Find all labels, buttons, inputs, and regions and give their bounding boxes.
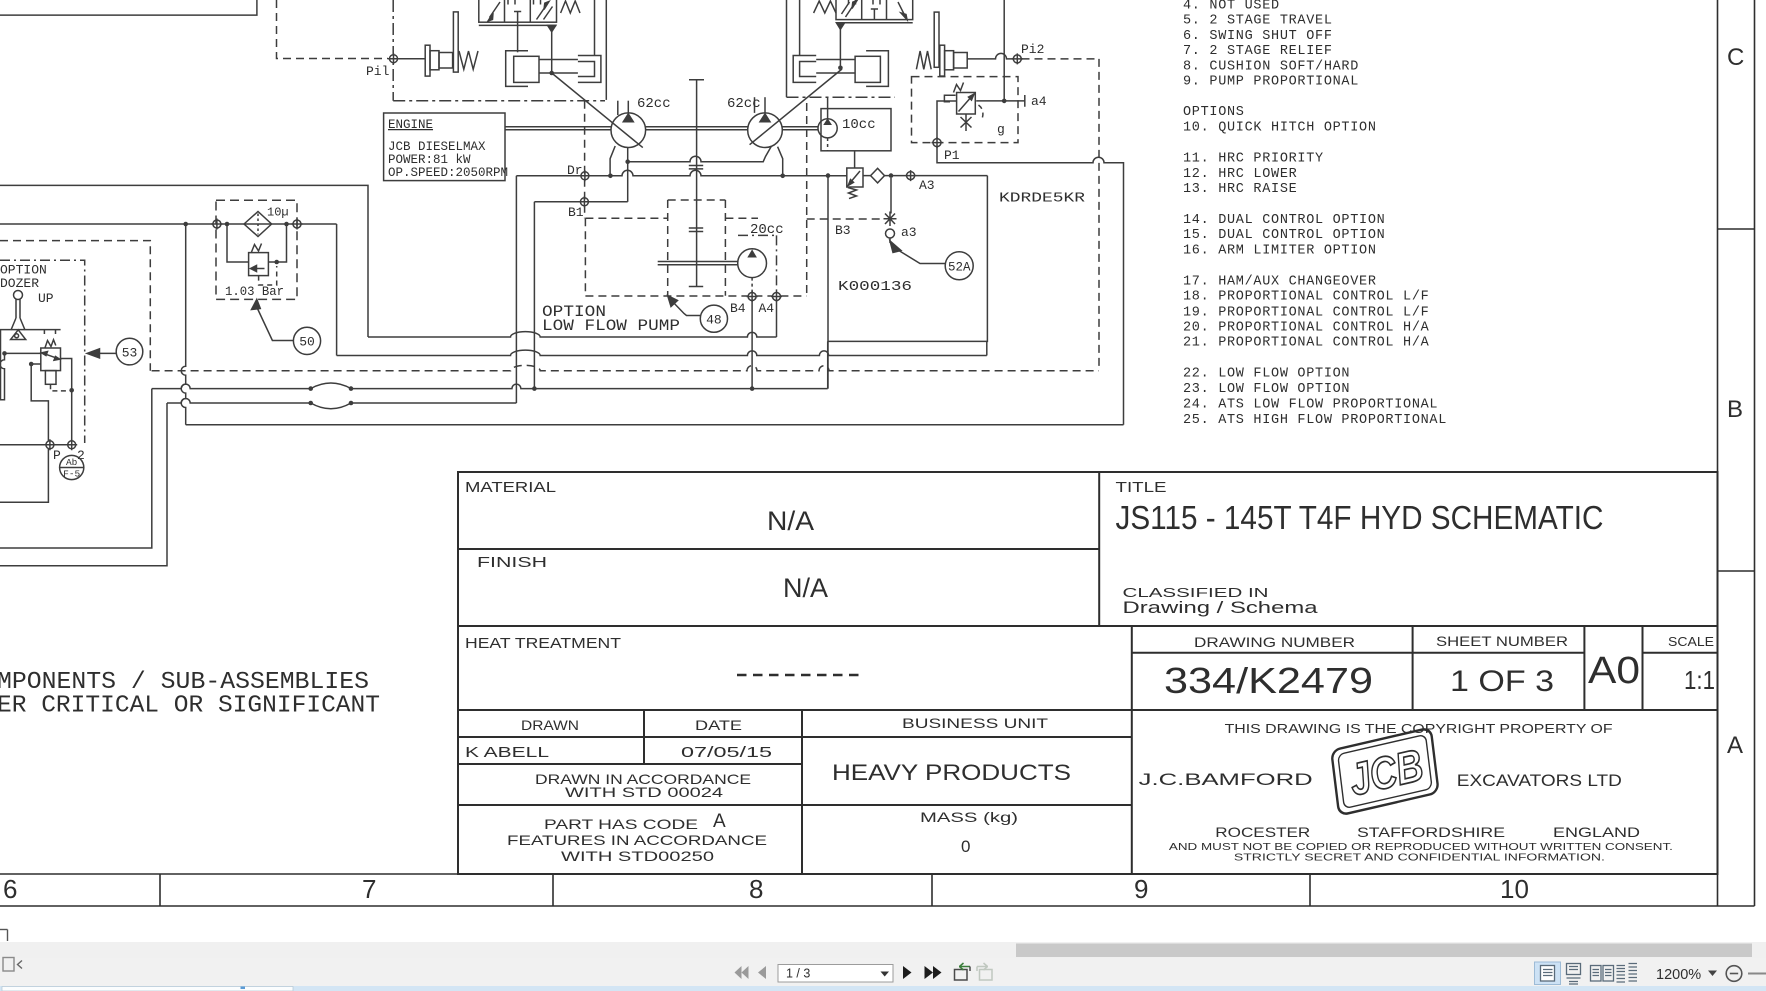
bypass spring <box>252 244 262 253</box>
pump P4 dash-dot enclosure <box>738 235 777 295</box>
lever pivot <box>11 330 26 340</box>
svg-text:N/A: N/A <box>767 506 814 536</box>
svg-text:DOZER: DOZER <box>0 276 39 291</box>
wire A4 drop to bus corner <box>776 301 778 338</box>
R2 spool pilot stubs <box>849 0 881 5</box>
svg-text:a4: a4 <box>1031 94 1047 109</box>
node bypass outlet <box>274 260 279 265</box>
node P1 leg interconnect <box>625 159 630 164</box>
transfer gearbox dashed box <box>668 200 726 296</box>
title block borders <box>458 472 1718 874</box>
bypass valve wires <box>227 224 287 262</box>
node B1 drop on return bus <box>532 386 537 391</box>
svg-text:FINISH: FINISH <box>477 554 547 571</box>
wire pressure bus from filter <box>337 350 987 355</box>
wire actuator to Pi2 <box>967 53 1013 59</box>
cut-off valve box top-left <box>0 0 257 15</box>
node K000136 top left <box>826 173 831 178</box>
wire valve inlet <box>5 352 41 354</box>
svg-text:KDRDE5KR: KDRDE5KR <box>999 191 1086 207</box>
svg-text:5. 2 STAGE TRAVEL: 5. 2 STAGE TRAVEL <box>1183 14 1333 29</box>
regulator block R1 dash-dot border <box>393 0 605 101</box>
svg-text:WITH STD00250: WITH STD00250 <box>561 848 714 864</box>
shaft couplings <box>689 166 703 232</box>
svg-text:A0: A0 <box>1588 650 1640 692</box>
svg-text:18. PROPORTIONAL CONTROL L/F: 18. PROPORTIONAL CONTROL L/F <box>1183 290 1429 305</box>
return bus lower with hose loop <box>167 399 516 404</box>
svg-text:17. HAM/AUX CHANGEOVER: 17. HAM/AUX CHANGEOVER <box>1183 275 1377 290</box>
bypass pilot dashed <box>259 266 277 285</box>
svg-text:N/A: N/A <box>783 573 828 603</box>
pump P3 10cc enclosure <box>821 109 891 151</box>
svg-text:10cc: 10cc <box>842 117 876 133</box>
R2 actuator spring <box>916 51 931 69</box>
svg-text:8. CUSHION SOFT/HARD: 8. CUSHION SOFT/HARD <box>1183 59 1359 74</box>
svg-text:THIS DRAWING IS THE COPYRIGHT: THIS DRAWING IS THE COPYRIGHT PROPERTY O… <box>1225 722 1613 736</box>
wire a4 riser <box>1003 0 1005 101</box>
svg-text:LOW FLOW PUMP: LOW FLOW PUMP <box>542 317 680 335</box>
svg-text:20. PROPORTIONAL CONTROL H/A: 20. PROPORTIONAL CONTROL H/A <box>1183 321 1430 336</box>
svg-text:OP.SPEED:2050RPM: OP.SPEED:2050RPM <box>388 166 508 180</box>
tank bus bottom <box>186 424 1124 426</box>
wire drain bus from header <box>368 332 777 337</box>
svg-text:SHEET NUMBER: SHEET NUMBER <box>1436 633 1568 649</box>
frame zone divider C/B <box>1718 228 1755 230</box>
wire P3 top port <box>827 97 829 119</box>
svg-text:J.C.BAMFORD: J.C.BAMFORD <box>1139 770 1313 789</box>
port A3 <box>905 170 916 181</box>
R2 inner wires <box>799 0 801 56</box>
balloon 53 <box>116 338 143 365</box>
dozer inner dash-dot enclosure <box>0 260 85 443</box>
svg-text:P: P <box>53 448 61 463</box>
frame bottom line <box>0 905 1755 907</box>
svg-text:A: A <box>713 811 726 832</box>
svg-text:Ab: Ab <box>66 457 78 468</box>
svg-text:A: A <box>1727 732 1743 759</box>
wire triangle to servo piston <box>551 32 553 73</box>
svg-text:Pi2: Pi2 <box>1021 42 1044 57</box>
svg-text:TITLE: TITLE <box>1116 479 1167 496</box>
R2 pilot actuator <box>940 45 967 76</box>
valve g pilot bracket <box>944 95 955 102</box>
svg-text:25. ATS HIGH FLOW PROPORTIONAL: 25. ATS HIGH FLOW PROPORTIONAL <box>1183 413 1447 428</box>
R1 spool bottom line <box>479 24 557 26</box>
svg-text:9. PUMP PROPORTIONAL: 9. PUMP PROPORTIONAL <box>1183 75 1359 90</box>
nav next page button <box>903 966 912 979</box>
svg-text:B4: B4 <box>730 301 746 316</box>
bottom status strip <box>0 986 1766 991</box>
dozer control lever <box>14 291 23 300</box>
svg-text:16. ARM LIMITER OPTION: 16. ARM LIMITER OPTION <box>1183 244 1377 259</box>
wire ports P and 2 <box>0 444 68 446</box>
wire B1 <box>534 201 627 203</box>
svg-text:4. NOT USED: 4. NOT USED <box>1183 0 1280 14</box>
svg-text:7: 7 <box>362 874 376 904</box>
wire filter tee drop to bus <box>181 224 186 425</box>
dozer option dashed enclosure <box>0 241 150 371</box>
node B4 on return bus <box>750 386 755 391</box>
regulator block R2 left border <box>786 0 788 97</box>
svg-text:7. 2 STAGE RELIEF: 7. 2 STAGE RELIEF <box>1183 44 1333 59</box>
regulator block R2 dash-dot bottom <box>787 96 895 98</box>
wire P4 outlet dotted <box>751 278 753 293</box>
R2 spool bottom line <box>836 22 913 24</box>
svg-text:POWER:81 kW: POWER:81 kW <box>388 153 471 167</box>
svg-text:Dr: Dr <box>567 163 583 178</box>
svg-text:K ABELL: K ABELL <box>465 744 549 761</box>
svg-text:a3: a3 <box>901 225 917 240</box>
svg-text:SCALE: SCALE <box>1668 634 1714 649</box>
svg-text:22. LOW FLOW OPTION: 22. LOW FLOW OPTION <box>1183 367 1350 382</box>
svg-text:Pil: Pil <box>366 64 390 79</box>
valve g proportional dashes <box>979 105 983 119</box>
relief valve RV1 <box>854 151 856 168</box>
svg-text:Drawing / Schema: Drawing / Schema <box>1123 598 1319 617</box>
node valve drain <box>29 362 34 367</box>
filter F1 dashed enclosure <box>216 200 297 299</box>
layout icon facing pages <box>1591 966 1614 982</box>
wire Dr drop to return bus <box>515 176 517 403</box>
nav previous page button <box>758 966 766 979</box>
svg-text:07/05/15: 07/05/15 <box>681 744 772 761</box>
wire B1 drop <box>533 202 535 389</box>
sheet frame: outer right border <box>1754 0 1756 906</box>
node hose lower right <box>349 401 354 406</box>
wire A3 to K000136 box corner <box>915 175 988 177</box>
svg-text:WITH STD 00024: WITH STD 00024 <box>565 784 723 800</box>
port P1 <box>932 137 943 148</box>
port A4 <box>771 291 782 302</box>
heat treatment dashes <box>737 674 865 676</box>
frame column dividers <box>159 874 161 906</box>
svg-text:10µ: 10µ <box>267 206 289 220</box>
layout icon single page (selected) <box>1535 962 1561 985</box>
svg-text:K000136: K000136 <box>838 279 912 295</box>
svg-text:STAFFORDSHIRE: STAFFORDSHIRE <box>1357 824 1505 840</box>
wire return bus left corner <box>0 389 152 548</box>
orifice a3 star <box>884 212 897 227</box>
R1 spool box <box>479 0 557 22</box>
svg-text:UP: UP <box>38 291 54 306</box>
svg-text:DATE: DATE <box>695 717 742 733</box>
node hose lower left <box>308 401 313 406</box>
cut-off wires left edge <box>0 330 5 400</box>
svg-text:JCB DIESELMAX: JCB DIESELMAX <box>388 140 486 154</box>
ENGINE box <box>384 113 505 181</box>
node P1 drain <box>608 174 613 179</box>
node A3 junction <box>889 173 894 178</box>
wire filter feed line <box>0 224 337 356</box>
wire g to P1 port <box>937 101 957 139</box>
svg-text:15. DUAL CONTROL OPTION: 15. DUAL CONTROL OPTION <box>1183 228 1385 243</box>
horizontal scrollbar thumb <box>1016 944 1752 958</box>
KDRDE5KR dashed boundary from Pi2 <box>1022 59 1100 371</box>
balloon 52A <box>945 252 973 280</box>
wire valve port 2 <box>61 359 72 441</box>
node filter tee <box>183 222 188 227</box>
wire a4 with port tick <box>976 95 1025 107</box>
next view icon (disabled) <box>977 963 992 980</box>
svg-text:6: 6 <box>3 874 17 904</box>
svg-text:23. LOW FLOW OPTION: 23. LOW FLOW OPTION <box>1183 382 1350 397</box>
svg-text:ENGINE: ENGINE <box>388 118 433 132</box>
horizontal scrollbar track <box>0 942 1766 958</box>
wire triangle to servo piston R2 <box>839 29 841 68</box>
viewer toolbar background <box>0 958 1766 986</box>
zoom slider line <box>1748 973 1766 975</box>
pilot line B1-Dr dashed <box>584 101 586 219</box>
pilot bus dashed <box>152 365 1099 370</box>
svg-text:1 / 3: 1 / 3 <box>786 967 810 981</box>
pump P4 20cc <box>738 249 767 278</box>
svg-text:6. SWING SHUT OFF: 6. SWING SHUT OFF <box>1183 29 1333 44</box>
node hose upper right <box>349 386 354 391</box>
svg-text:12. HRC LOWER: 12. HRC LOWER <box>1183 167 1297 182</box>
K000136 valve block box <box>828 176 987 342</box>
R2 actuator plate <box>934 12 939 67</box>
wire P1 supply line <box>937 147 1124 425</box>
port 2 <box>66 439 77 450</box>
nav first page button <box>735 966 749 979</box>
wire R1 to pump ports <box>617 101 619 115</box>
svg-text:DRAWN: DRAWN <box>521 717 579 733</box>
balloon 48 <box>700 305 727 332</box>
wire a3 down with arrow to 52A <box>889 238 891 243</box>
node valve inlet <box>2 351 7 356</box>
valve g throttle <box>961 114 972 131</box>
layout icon continuous facing <box>1617 964 1638 983</box>
svg-text:ER CRITICAL OR SIGNIFICANT: ER CRITICAL OR SIGNIFICANT <box>0 693 380 720</box>
page number box 1 / 3 <box>778 965 893 983</box>
balloon 50 pointer <box>252 299 261 309</box>
svg-text:B: B <box>1727 396 1743 423</box>
svg-text:11. HRC PRIORITY: 11. HRC PRIORITY <box>1183 151 1324 166</box>
svg-text:13. HRC RAISE: 13. HRC RAISE <box>1183 182 1297 197</box>
svg-text:EXCAVATORS LTD: EXCAVATORS LTD <box>1457 771 1622 790</box>
svg-text:B1: B1 <box>568 205 584 220</box>
svg-text:10: 10 <box>1500 874 1529 904</box>
svg-text:DRAWING NUMBER: DRAWING NUMBER <box>1194 634 1355 650</box>
JCB logo <box>1325 728 1446 816</box>
balloon 48 pointer <box>671 300 701 316</box>
wire Dr bus <box>516 170 846 175</box>
lever ground line <box>0 330 61 334</box>
svg-text:FEATURES IN ACCORDANCE: FEATURES IN ACCORDANCE <box>507 832 767 848</box>
R1 inner wires <box>517 22 519 52</box>
valve g arrow <box>959 96 973 112</box>
svg-text:334/K2479: 334/K2479 <box>1164 660 1373 701</box>
balloon 50 <box>293 327 320 354</box>
node on port2 wire <box>69 388 74 393</box>
check ball a3 <box>886 229 895 238</box>
wire valve drain <box>0 364 48 502</box>
R1 spool spring (top right) <box>561 1 580 13</box>
svg-text:P1: P1 <box>944 148 960 163</box>
note COMPONENTS / SUB-ASSEMBLIES (cut at left edge) <box>0 669 380 720</box>
balloon 53 pointer arrow <box>87 349 100 358</box>
svg-text:50: 50 <box>299 335 315 350</box>
wire R2 to pump ports <box>754 97 756 113</box>
pump P2 62cc <box>748 113 783 148</box>
svg-text:OPTIONS: OPTIONS <box>1183 105 1245 120</box>
R1 spool cell arrows <box>490 2 501 18</box>
svg-text:24. ATS LOW FLOW PROPORTIONAL: 24. ATS LOW FLOW PROPORTIONAL <box>1183 397 1438 412</box>
balloon Ab F-5 <box>60 455 84 479</box>
node servo piston R2 <box>838 66 843 71</box>
svg-text:1.03 Bar: 1.03 Bar <box>225 285 284 299</box>
svg-text:21. PROPORTIONAL CONTROL H/A: 21. PROPORTIONAL CONTROL H/A <box>1183 336 1430 351</box>
svg-text:8: 8 <box>749 874 763 904</box>
pump P3 10cc <box>818 119 837 138</box>
svg-text:48: 48 <box>706 313 722 328</box>
svg-text:MASS (kg): MASS (kg) <box>920 809 1018 825</box>
pump P1 62cc <box>611 113 646 148</box>
node servo piston R1 <box>549 71 554 76</box>
node hose upper left <box>308 386 313 391</box>
svg-text:BUSINESS UNIT: BUSINESS UNIT <box>902 715 1049 731</box>
port Dr <box>579 170 590 181</box>
dozer valve arrow <box>45 354 58 358</box>
frame bottom row top line <box>0 873 1718 875</box>
svg-text:HEAVY PRODUCTS: HEAVY PRODUCTS <box>832 760 1071 785</box>
check/filter diamond <box>871 168 885 183</box>
svg-text:19. PROPORTIONAL CONTROL L/F: 19. PROPORTIONAL CONTROL L/F <box>1183 305 1429 320</box>
valve g pilot spring <box>954 83 964 93</box>
valve g dashed enclosure <box>912 77 1019 143</box>
wire Pil pilot dashed <box>277 0 389 59</box>
svg-text:B3: B3 <box>835 223 851 238</box>
engine drive shaft double line <box>505 127 611 130</box>
node a4 <box>1002 99 1007 104</box>
shaft tee and vertical shaft <box>689 80 704 287</box>
svg-text:MATERIAL: MATERIAL <box>465 479 556 496</box>
return bus upper with hose loop <box>152 384 828 389</box>
svg-text:10. QUICK HITCH OPTION: 10. QUICK HITCH OPTION <box>1183 120 1377 135</box>
dozer valve spring <box>45 340 56 348</box>
svg-text:62cc: 62cc <box>637 96 671 112</box>
R2 spool cell arrows <box>842 2 856 17</box>
R2 servo piston <box>793 51 888 87</box>
gearbox output shaft double line <box>658 262 738 265</box>
svg-text:ENGLAND: ENGLAND <box>1553 824 1640 840</box>
svg-text:STRICTLY SECRET AND CONFIDENTI: STRICTLY SECRET AND CONFIDENTIAL INFORMA… <box>1234 852 1605 864</box>
port P <box>44 439 55 450</box>
wire pump leg interconnect <box>628 146 772 162</box>
port Pil <box>388 53 399 64</box>
wire Pil to actuator <box>398 58 425 60</box>
wire P3 outlet dotted <box>827 138 829 151</box>
svg-text:9: 9 <box>1134 874 1148 904</box>
svg-text:ROCESTER: ROCESTER <box>1215 824 1310 840</box>
R1 servo piston <box>506 51 601 87</box>
key list of functions and options <box>1183 0 1447 428</box>
R1 pilot tapping triangle <box>548 25 556 31</box>
low flow option dashed enclosure <box>585 218 806 296</box>
R2 spool spring (top left) <box>814 1 836 13</box>
svg-text:1:1: 1:1 <box>1684 665 1715 695</box>
sidebar toggle icon <box>3 958 22 972</box>
port filter outlet <box>292 219 303 230</box>
relief valve spring <box>848 188 857 199</box>
wire drain header left <box>0 185 368 337</box>
port B1 <box>579 196 590 207</box>
wire lower return left corner <box>0 403 167 566</box>
svg-text:53: 53 <box>122 345 138 360</box>
svg-text:1 OF 3: 1 OF 3 <box>1450 665 1554 698</box>
svg-text:14. DUAL CONTROL OPTION: 14. DUAL CONTROL OPTION <box>1183 213 1385 228</box>
wire diamond to A3 <box>863 175 907 177</box>
R2 spool box <box>836 0 913 20</box>
zoom dropdown caret <box>1708 971 1717 977</box>
filter F1 diamond 10u <box>244 212 272 237</box>
svg-text:A3: A3 <box>919 178 935 193</box>
frame zone divider B/A <box>1718 570 1755 572</box>
svg-text:A4: A4 <box>759 301 775 316</box>
R1 spool pilot stubs <box>508 0 541 5</box>
port Pi2 <box>1012 53 1023 64</box>
valve g body <box>957 93 976 115</box>
node bypass left <box>225 222 230 227</box>
wire B4 drop <box>751 301 753 389</box>
svg-text:1200%: 1200% <box>1656 967 1701 983</box>
R1 pilot actuator <box>425 12 458 76</box>
R1 actuator spring <box>459 51 478 69</box>
bypass relief valve <box>249 253 269 276</box>
dozer valve actuator <box>45 371 56 385</box>
R2 pilot tapping triangle <box>836 23 844 29</box>
pump P2 case drain leg <box>778 147 783 176</box>
node bypass right <box>284 222 289 227</box>
wire return bus corner up <box>827 341 829 388</box>
layout icon continuous <box>1567 964 1581 985</box>
hose loop lower arc <box>311 403 351 409</box>
port B4 <box>747 291 758 302</box>
swash link P2 diagonal <box>750 69 842 145</box>
nav last page button <box>925 966 942 979</box>
swash link R1 diagonal <box>552 73 643 148</box>
status strip left segment <box>2 987 293 991</box>
wire A3 node to orifice <box>890 178 892 214</box>
svg-text:C: C <box>1727 44 1744 71</box>
svg-text:JS115 - 145T T4F HYD SCHEMATIC: JS115 - 145T T4F HYD SCHEMATIC <box>1116 499 1604 536</box>
pump P1 case drain legs <box>610 146 615 176</box>
port filter inlet <box>211 219 222 230</box>
svg-text:PART HAS CODE: PART HAS CODE <box>544 816 698 832</box>
hose loop upper arc <box>311 383 351 389</box>
svg-text:F-5: F-5 <box>63 469 80 480</box>
next page corner tick <box>0 930 8 942</box>
dozer valve body <box>41 348 61 371</box>
svg-text:62cc: 62cc <box>727 96 761 112</box>
svg-text:52A: 52A <box>948 261 971 275</box>
node P2 drain <box>780 174 785 179</box>
previous view icon <box>955 963 971 980</box>
pumps group dashed enclosure right edge <box>806 103 808 296</box>
svg-text:HEAT TREATMENT: HEAT TREATMENT <box>465 635 621 652</box>
pilot line B3 dashed <box>807 218 884 220</box>
svg-text:0: 0 <box>961 837 970 856</box>
zoom out button <box>1726 966 1742 982</box>
svg-text:g: g <box>997 122 1005 137</box>
